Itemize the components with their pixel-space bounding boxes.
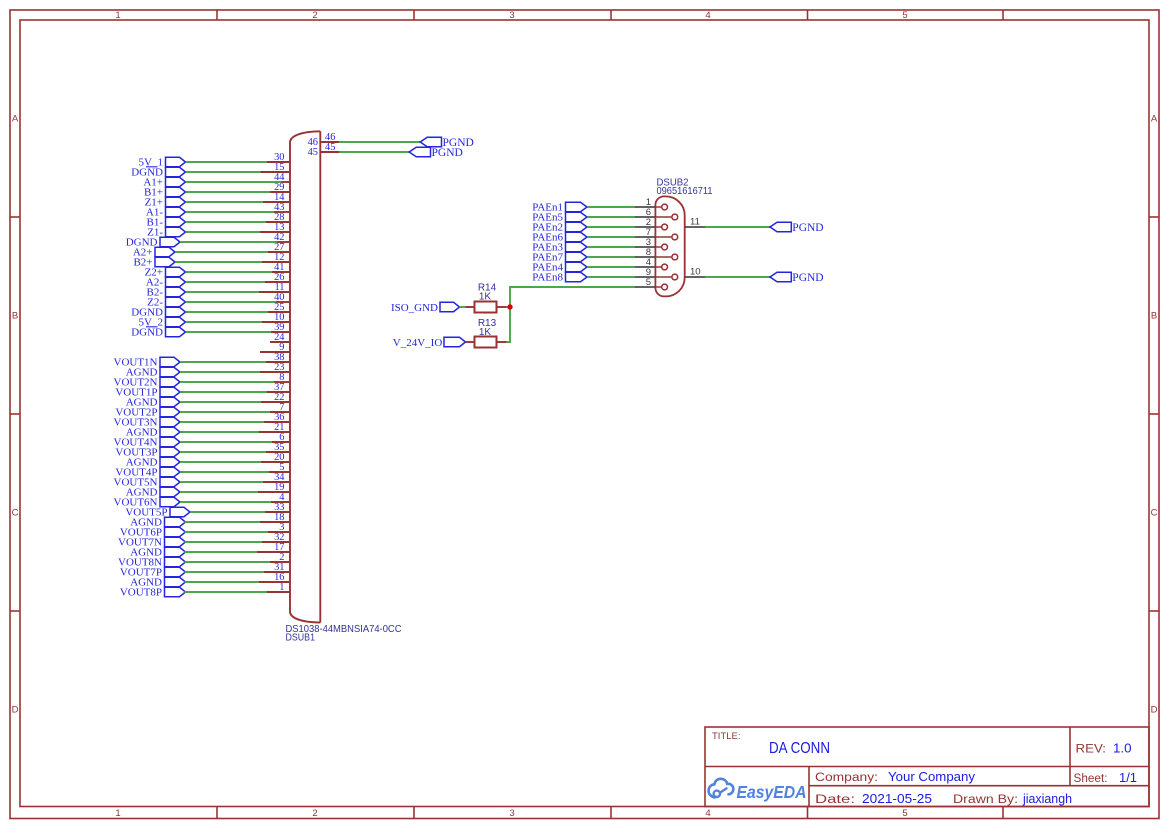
wire	[587, 256, 635, 258]
svg-text:Drawn By:: Drawn By:	[953, 794, 1018, 806]
column tick marks top	[217, 10, 1003, 20]
net flag PAEn6	[532, 231, 587, 243]
svg-text:3: 3	[509, 808, 514, 819]
pin 32 of DSUB1	[262, 532, 290, 543]
pin 44 of DSUB1	[274, 172, 290, 183]
net flag PAEn2	[532, 221, 587, 233]
svg-text:TITLE:: TITLE:	[712, 731, 741, 742]
net flag VOUT7N	[118, 536, 186, 548]
row letters right	[1151, 113, 1158, 715]
net flag A2-	[146, 276, 186, 288]
pin 41 of DSUB1	[272, 262, 290, 273]
junction	[507, 304, 512, 309]
net flag PAEn1	[532, 201, 587, 213]
wire	[180, 401, 261, 403]
net flag PGND	[420, 137, 474, 149]
resistor R14	[466, 283, 507, 313]
svg-text:PGND: PGND	[792, 222, 823, 234]
pin 3 of DSUB2	[635, 237, 667, 250]
net flag VOUT7P	[120, 566, 186, 578]
svg-text:5: 5	[646, 277, 651, 288]
wire	[180, 371, 260, 373]
column numbers top	[115, 10, 907, 21]
pin 12 of DSUB1	[262, 252, 290, 263]
net flag VOUT3N	[114, 416, 181, 428]
wire	[180, 411, 270, 413]
wire	[180, 461, 261, 463]
net flag A1+	[143, 176, 185, 188]
wire	[180, 441, 272, 443]
net flag A1-	[146, 206, 186, 218]
wire	[186, 291, 260, 293]
pin 14 of DSUB1	[263, 192, 290, 203]
connector DSUB1 body	[290, 131, 320, 622]
net flag DGND	[131, 326, 185, 338]
svg-text:45: 45	[308, 147, 318, 158]
pin 18 of DSUB1	[260, 512, 290, 523]
pin 3 of DSUB1	[268, 522, 290, 533]
row tick marks right	[1149, 217, 1159, 611]
svg-text:REV:: REV:	[1076, 744, 1107, 756]
pin 38 of DSUB1	[266, 352, 290, 363]
pin 19 of DSUB1	[258, 482, 290, 493]
net flag AGND	[130, 576, 185, 588]
svg-text:Date:: Date:	[815, 794, 855, 806]
net flag VOUT8P	[120, 586, 186, 598]
net flag VOUT2N	[114, 376, 181, 388]
net flag VOUT5P	[125, 506, 190, 518]
wire	[180, 451, 266, 453]
wire	[180, 431, 259, 433]
pin 9 of DSUB1	[260, 342, 290, 353]
pin 2 of DSUB2	[635, 217, 667, 230]
pin 30 of DSUB1	[267, 152, 290, 163]
pin 16 of DSUB1	[259, 572, 290, 583]
pin 22 of DSUB1	[261, 392, 290, 403]
net flag VOUT4P	[115, 466, 180, 478]
wire	[185, 531, 269, 533]
pin 6 of DSUB1	[272, 432, 290, 443]
svg-text:1/1: 1/1	[1119, 771, 1137, 785]
svg-text:5: 5	[902, 808, 907, 819]
wire	[180, 241, 277, 243]
wire	[186, 171, 261, 173]
net flag AGND	[126, 366, 180, 378]
wire	[185, 561, 271, 563]
wire	[186, 271, 273, 273]
pin 6 of DSUB2	[635, 207, 678, 220]
pin 1 of DSUB2	[635, 197, 667, 210]
pin 11 of DSUB2	[685, 217, 705, 228]
wire	[587, 246, 635, 248]
net flag PAEn5	[532, 211, 587, 223]
pin 24 of DSUB1	[270, 332, 290, 343]
svg-text:2: 2	[312, 10, 317, 21]
svg-text:D: D	[12, 704, 19, 715]
wire	[185, 591, 268, 593]
svg-text:1: 1	[279, 582, 284, 593]
net flag DGND	[131, 306, 185, 318]
row tick marks left	[10, 217, 20, 611]
svg-text:C: C	[1151, 507, 1158, 518]
wire	[185, 541, 263, 543]
svg-text:9: 9	[279, 342, 284, 353]
wire	[186, 211, 275, 213]
svg-text:B: B	[1151, 310, 1157, 321]
row letters left	[12, 113, 19, 715]
svg-text:PAEn8: PAEn8	[532, 271, 563, 283]
net flag VOUT5N	[114, 476, 181, 488]
net flag B1+	[144, 186, 186, 198]
net flag B2+	[133, 256, 175, 268]
svg-text:PGND: PGND	[432, 147, 463, 159]
pin 23 of DSUB1	[260, 362, 290, 373]
net flag Z1-	[147, 226, 185, 238]
wire	[186, 231, 261, 233]
net flag VOUT1N	[114, 356, 181, 368]
pin 39 of DSUB1	[271, 322, 290, 333]
svg-text:1: 1	[115, 808, 120, 819]
wire	[180, 501, 271, 503]
net flag Z2+	[145, 266, 186, 278]
pin 21 of DSUB1	[259, 422, 290, 433]
wire	[180, 471, 269, 473]
net flag VOUT6N	[114, 496, 181, 508]
svg-text:10: 10	[690, 267, 701, 278]
pin 40 of DSUB1	[274, 292, 290, 303]
pin 10 of DSUB2	[685, 267, 705, 278]
net flag AGND	[126, 486, 180, 498]
net flag VOUT6P	[120, 526, 186, 538]
net flag 5V_1	[139, 156, 186, 168]
pin 37 of DSUB1	[267, 382, 290, 393]
wire	[339, 151, 409, 153]
pin 29 of DSUB1	[270, 182, 290, 193]
pin 5 of DSUB1	[269, 462, 290, 473]
wire	[180, 391, 267, 393]
net flag AGND	[126, 396, 180, 408]
pin 5 of DSUB2	[635, 277, 667, 290]
wire	[185, 551, 258, 553]
wire	[180, 491, 258, 493]
wire	[587, 206, 635, 208]
svg-text:jiaxiangh: jiaxiangh	[1022, 792, 1072, 806]
net flag PGND	[770, 222, 824, 234]
svg-text:VOUT8P: VOUT8P	[120, 586, 162, 598]
pin 33 of DSUB1	[265, 502, 290, 513]
svg-text:DA CONN: DA CONN	[769, 740, 830, 757]
pin 11 of DSUB1	[259, 282, 290, 293]
wire	[186, 281, 266, 283]
pin 35 of DSUB1	[266, 442, 290, 453]
wire	[705, 276, 770, 278]
overline artifact	[146, 166, 158, 168]
net flag DGND	[131, 166, 185, 178]
pin 28 of DSUB1	[266, 212, 290, 223]
net flag Z2-	[147, 296, 185, 308]
wire	[186, 331, 272, 333]
wire	[587, 236, 635, 238]
wire	[190, 511, 265, 513]
net flag B1-	[147, 216, 186, 228]
pin 36 of DSUB1	[264, 412, 290, 423]
svg-text:B: B	[12, 310, 18, 321]
pin 10 of DSUB1	[262, 312, 290, 323]
EasyEDA logo	[709, 779, 807, 802]
overline artifact	[146, 326, 158, 328]
svg-text:2021-05-25: 2021-05-25	[862, 792, 932, 806]
svg-text:1K: 1K	[479, 292, 492, 303]
svg-text:1.0: 1.0	[1113, 742, 1132, 756]
net flag PAEn3	[532, 241, 587, 253]
net flag VOUT8N	[118, 556, 186, 568]
pin 45 of DSUB1	[308, 147, 339, 158]
svg-text:2: 2	[312, 808, 317, 819]
svg-text:ISO_GND: ISO_GND	[391, 302, 438, 314]
wire	[460, 306, 466, 308]
net flag AGND	[130, 546, 185, 558]
pin 17 of DSUB1	[257, 542, 290, 553]
wire	[587, 226, 635, 228]
net flag ISO_GND	[391, 302, 460, 314]
net flag A2+	[133, 246, 175, 258]
pin 31 of DSUB1	[264, 562, 290, 573]
svg-text:5: 5	[902, 10, 907, 21]
net flag 5V_2	[139, 316, 186, 328]
svg-text:V_24V_IO: V_24V_IO	[393, 337, 443, 349]
wire	[186, 161, 268, 163]
pin 15 of DSUB1	[261, 162, 291, 173]
column numbers bottom	[115, 808, 907, 819]
wire	[180, 381, 274, 383]
wire	[186, 191, 271, 193]
net flag AGND	[126, 456, 180, 468]
svg-text:EasyEDA: EasyEDA	[737, 782, 807, 802]
svg-text:3: 3	[509, 10, 514, 21]
wire	[185, 581, 260, 583]
svg-text:11: 11	[690, 217, 700, 228]
wire	[180, 421, 264, 423]
svg-text:45: 45	[325, 142, 335, 153]
svg-text:A: A	[12, 113, 19, 124]
wire	[186, 201, 264, 203]
pin 7 of DSUB2	[635, 227, 678, 240]
connector DSUB2 body	[655, 196, 684, 296]
net flag DGND	[126, 236, 180, 248]
svg-text:D: D	[1151, 704, 1158, 715]
pin 2 of DSUB1	[270, 552, 290, 563]
pin 43 of DSUB1	[274, 202, 290, 213]
net flag VOUT2P	[115, 406, 180, 418]
net flag PAEn7	[532, 251, 587, 263]
net flag VOUT3P	[115, 446, 180, 458]
svg-text:Company:: Company:	[815, 772, 878, 784]
wire	[180, 481, 263, 483]
net flag PAEn8	[532, 271, 587, 283]
wire	[186, 181, 282, 183]
pin 26 of DSUB1	[265, 272, 290, 283]
svg-text:1K: 1K	[479, 327, 492, 338]
resistor R13	[466, 318, 507, 348]
wire	[186, 311, 269, 313]
net flag PGND	[770, 272, 824, 284]
svg-text:4: 4	[705, 808, 710, 819]
pin 4 of DSUB2	[635, 257, 667, 270]
net flag V_24V_IO	[393, 337, 466, 349]
wire	[175, 261, 262, 263]
wire	[339, 141, 420, 143]
title block	[705, 727, 1149, 807]
wire	[705, 226, 770, 228]
pin 46 of DSUB1	[308, 137, 339, 148]
net flag AGND	[126, 426, 180, 438]
wire	[175, 251, 268, 253]
pin 4 of DSUB1	[271, 492, 290, 503]
pin 9 of DSUB2	[635, 267, 678, 280]
pin 27 of DSUB1	[268, 242, 290, 253]
svg-text:DSUB1: DSUB1	[286, 632, 316, 644]
svg-text:DGND: DGND	[131, 326, 163, 338]
wire	[507, 287, 636, 342]
wire	[185, 521, 261, 523]
svg-text:C: C	[12, 507, 19, 518]
wire	[186, 221, 267, 223]
wire	[587, 266, 635, 268]
pin 20 of DSUB1	[261, 452, 290, 463]
wire	[180, 361, 266, 363]
svg-text:Sheet:: Sheet:	[1074, 773, 1108, 785]
wire	[507, 306, 511, 308]
net flag VOUT1P	[115, 386, 180, 398]
wire	[186, 301, 277, 303]
net flag B2-	[147, 286, 186, 298]
svg-text:Your Company: Your Company	[888, 770, 976, 784]
pin 42 of DSUB1	[274, 232, 290, 243]
net flag VOUT4N	[114, 436, 181, 448]
pin 8 of DSUB1	[274, 372, 290, 383]
pin 7 of DSUB1	[270, 402, 290, 413]
svg-text:PGND: PGND	[792, 272, 823, 284]
net flag PAEn4	[532, 261, 587, 273]
pin 34 of DSUB1	[263, 472, 290, 483]
column tick marks bottom	[217, 807, 1003, 819]
svg-text:4: 4	[705, 10, 710, 21]
svg-text:A: A	[1151, 113, 1158, 124]
wire	[185, 571, 265, 573]
net flag PGND	[409, 147, 463, 159]
wire	[587, 216, 635, 218]
pin 13 of DSUB1	[260, 222, 290, 233]
svg-text:09651616711: 09651616711	[657, 185, 713, 197]
wire	[186, 321, 263, 323]
net flag AGND	[130, 516, 185, 528]
pin 1 of DSUB1	[267, 582, 290, 593]
pin 8 of DSUB2	[635, 247, 678, 260]
svg-text:1: 1	[115, 10, 120, 21]
pin 25 of DSUB1	[268, 302, 290, 313]
net flag Z1+	[145, 196, 186, 208]
wire	[587, 276, 635, 278]
